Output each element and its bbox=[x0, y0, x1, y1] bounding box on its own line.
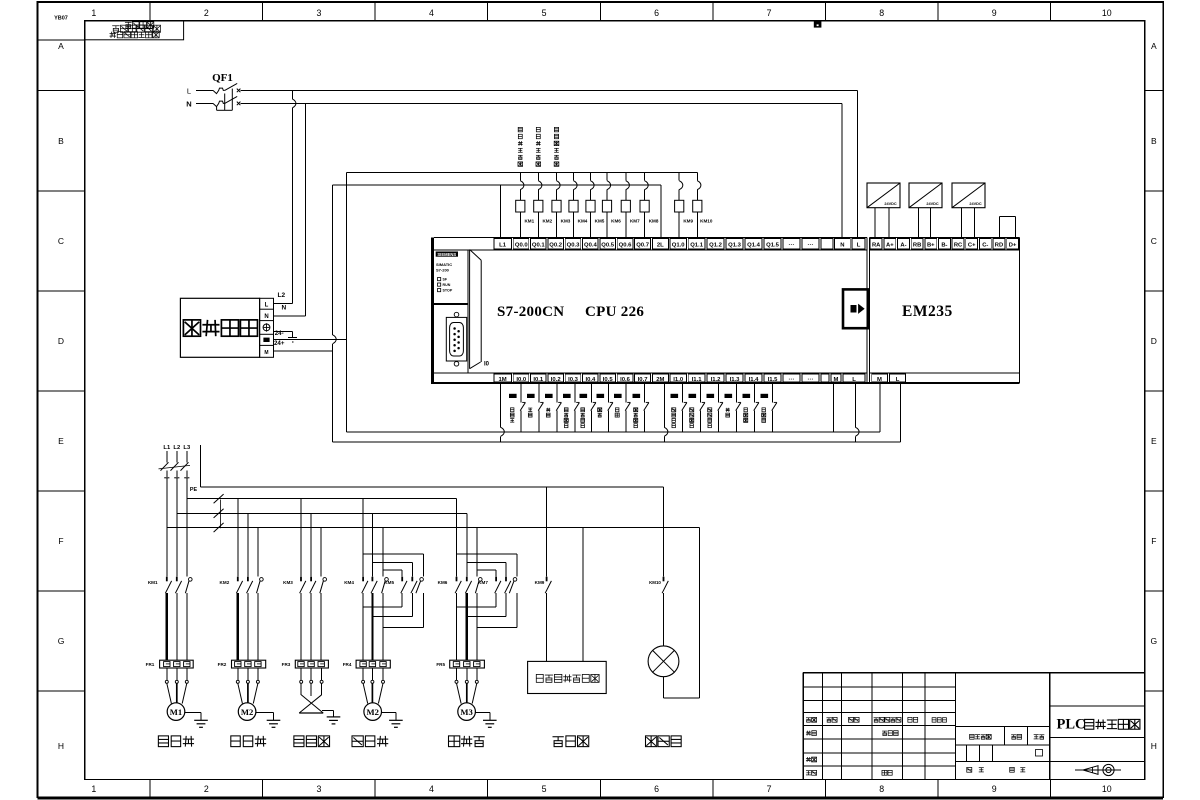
contactor contacts KM6 FWD bbox=[438, 577, 482, 594]
contactor contacts KM3 bbox=[283, 577, 326, 594]
svg-text:6: 6 bbox=[654, 784, 659, 794]
thermal relay FR2 bbox=[218, 660, 266, 668]
vertical label 加热器接触器 bbox=[554, 127, 559, 166]
motor M2 KM4 bbox=[364, 703, 382, 721]
svg-text:CPU 226: CPU 226 bbox=[585, 304, 644, 320]
svg-text:H: H bbox=[58, 741, 64, 751]
svg-text:···: ··· bbox=[808, 377, 814, 383]
svg-text:H: H bbox=[1151, 741, 1157, 751]
svg-text:PLC: PLC bbox=[1057, 717, 1086, 733]
svg-text:Q0.7: Q0.7 bbox=[636, 242, 649, 248]
motor M2 branch2 bbox=[238, 703, 256, 721]
svg-text:G: G bbox=[1150, 636, 1157, 646]
drawing label box 合分闸图 bbox=[85, 21, 184, 40]
svg-text:Q1.0: Q1.0 bbox=[672, 242, 685, 248]
EM235 label bbox=[902, 303, 953, 320]
input switch I1.1 bbox=[689, 383, 706, 432]
heater EH triangle bbox=[299, 712, 323, 714]
svg-text:F: F bbox=[58, 536, 63, 546]
svg-text:10: 10 bbox=[1102, 8, 1112, 18]
svg-text:I0.0: I0.0 bbox=[516, 377, 527, 383]
wire L2 tap to DC supply (hooks over N) bbox=[274, 90, 296, 303]
label L3 bbox=[183, 445, 191, 451]
svg-text:Q0.0: Q0.0 bbox=[515, 242, 528, 248]
transducer T2 bbox=[909, 183, 942, 237]
contactor contacts KM7 REV bbox=[478, 577, 517, 594]
svg-text:KM7: KM7 bbox=[478, 580, 488, 585]
svg-text:Q0.5: Q0.5 bbox=[601, 242, 614, 248]
svg-text:KM7: KM7 bbox=[630, 219, 640, 224]
svg-text:L1: L1 bbox=[163, 445, 171, 451]
svg-text:1M: 1M bbox=[499, 377, 507, 383]
transducer T1 bbox=[867, 183, 900, 237]
svg-text:I0.6: I0.6 bbox=[620, 377, 631, 383]
branch1 motor leads bbox=[165, 668, 188, 704]
svg-text:FR3: FR3 bbox=[282, 662, 291, 667]
vertical label 冷风机接触器 bbox=[536, 127, 541, 166]
svg-text:E: E bbox=[58, 436, 64, 446]
relay coil KM2 bbox=[534, 172, 553, 237]
svg-text:STOP: STOP bbox=[443, 289, 453, 293]
svg-text:KM5: KM5 bbox=[595, 219, 605, 224]
svg-text:L1: L1 bbox=[499, 242, 507, 248]
contactor contacts KM4 FWD bbox=[344, 577, 388, 594]
svg-text:I1.0: I1.0 bbox=[673, 377, 684, 383]
relay coil KM4 bbox=[569, 172, 588, 237]
svg-text:1: 1 bbox=[91, 8, 96, 18]
branch3 phase taps bbox=[301, 499, 321, 577]
relay coil KM10 bbox=[693, 172, 713, 237]
bus C bbox=[167, 527, 700, 529]
svg-text:YB07: YB07 bbox=[54, 16, 68, 22]
label 加热器 bbox=[294, 736, 330, 747]
PLC CPU S7-200CN 226 body bbox=[431, 237, 1019, 383]
input switch I0.0 bbox=[509, 383, 526, 432]
relay coil KM9 bbox=[675, 172, 694, 237]
heater leads crossed bbox=[299, 668, 323, 713]
branch2 phase taps bbox=[238, 499, 258, 577]
svg-text:G: G bbox=[58, 636, 65, 646]
phase wire Lb bbox=[176, 481, 178, 577]
branch2 wires to thermal relay bbox=[238, 593, 258, 660]
svg-text:L3: L3 bbox=[183, 445, 191, 451]
CPU label S7-200CN CPU 226 bbox=[497, 304, 644, 320]
svg-text:FR2: FR2 bbox=[218, 662, 227, 667]
label 冷风机 bbox=[231, 736, 266, 747]
wire L1 terminal riser bbox=[500, 185, 502, 237]
svg-text:I0.7: I0.7 bbox=[638, 377, 649, 383]
svg-text:KM5: KM5 bbox=[384, 580, 394, 585]
label 发生器 bbox=[553, 736, 589, 747]
svg-text:F: F bbox=[1151, 536, 1156, 546]
svg-text:N: N bbox=[840, 242, 844, 248]
svg-text:M3: M3 bbox=[460, 707, 472, 717]
label 遮阳帘 bbox=[449, 736, 485, 747]
relay coil KM7 bbox=[621, 172, 640, 237]
input switch I1.5 bbox=[761, 383, 778, 432]
svg-text:KM10: KM10 bbox=[700, 219, 713, 224]
breaker QF1 label bbox=[212, 72, 233, 84]
input switch I1.3 bbox=[725, 383, 742, 432]
lamp EL 补光灯 bbox=[648, 646, 679, 677]
input switch I0.2 bbox=[545, 383, 562, 432]
label N bbox=[186, 100, 191, 109]
EM235 top terminal strip bbox=[870, 238, 1018, 249]
svg-text:7: 7 bbox=[767, 784, 772, 794]
CPU DB9 port bbox=[446, 312, 466, 366]
svg-text:3: 3 bbox=[316, 784, 321, 794]
svg-text:EM235: EM235 bbox=[902, 303, 953, 320]
svg-text:SIEMENS: SIEMENS bbox=[437, 252, 456, 257]
riser A (lower bus to input L bus, hooks over 24+) bbox=[333, 185, 337, 442]
contactor contacts KM2 bbox=[220, 577, 264, 594]
svg-text:I1.1: I1.1 bbox=[692, 377, 703, 383]
svg-text:9: 9 bbox=[992, 784, 997, 794]
svg-text:L: L bbox=[852, 377, 856, 383]
svg-text:B: B bbox=[1151, 136, 1157, 146]
svg-text:KM8: KM8 bbox=[649, 219, 659, 224]
svg-text:Q1.4: Q1.4 bbox=[747, 242, 760, 248]
label 热风机 bbox=[158, 736, 194, 747]
wire 2M bbox=[664, 383, 668, 442]
svg-text:C: C bbox=[58, 236, 64, 246]
bus B bbox=[177, 512, 467, 514]
phase wire La bbox=[166, 481, 168, 577]
label 24+ bbox=[274, 340, 285, 347]
ground M1 bbox=[185, 713, 208, 728]
label I0 bbox=[484, 362, 490, 368]
svg-text:D: D bbox=[58, 336, 64, 346]
branch KM6 wires to thermal relay bbox=[457, 593, 477, 660]
relay coil KM8 bbox=[640, 172, 659, 237]
wire 2L terminal riser bbox=[660, 185, 662, 237]
svg-text:Q1.1: Q1.1 bbox=[690, 242, 703, 248]
svg-text:7: 7 bbox=[767, 8, 772, 18]
svg-text:N: N bbox=[281, 305, 286, 312]
wire N (QF1 to CPU N terminal) bbox=[240, 103, 841, 237]
svg-text:A+: A+ bbox=[886, 242, 894, 248]
svg-text:N: N bbox=[186, 100, 191, 109]
thermal relay FR1 bbox=[146, 660, 194, 668]
title text PLC外部接线图 bbox=[1057, 717, 1140, 733]
branch KM4 wires to thermal relay bbox=[363, 593, 383, 660]
svg-text:24VDC: 24VDC bbox=[884, 202, 896, 206]
input switch I0.7 bbox=[633, 383, 650, 432]
vertical label 热风机接触器 bbox=[518, 127, 523, 166]
ground branch2 bbox=[256, 713, 280, 728]
wire 24- to ground bbox=[274, 332, 293, 338]
svg-text:4: 4 bbox=[429, 784, 434, 794]
CPU top terminal strip bbox=[494, 238, 865, 249]
input switch I0.4 bbox=[580, 383, 597, 432]
svg-text:M1: M1 bbox=[170, 707, 182, 717]
transducer T3 bbox=[952, 183, 985, 237]
svg-text:KM6: KM6 bbox=[438, 580, 448, 585]
svg-text:3: 3 bbox=[316, 8, 321, 18]
svg-text:I0.4: I0.4 bbox=[585, 377, 596, 383]
EM235 module body bbox=[869, 237, 1019, 383]
svg-text:S7-200: S7-200 bbox=[436, 267, 450, 272]
bus A bbox=[187, 498, 457, 500]
branch KM6 motor leads bbox=[455, 668, 478, 704]
svg-text:A-: A- bbox=[900, 242, 906, 248]
generator switch KM9 contact bbox=[535, 487, 552, 661]
svg-text:FR1: FR1 bbox=[146, 662, 155, 667]
input switch I0.6 bbox=[614, 383, 631, 432]
svg-text:M: M bbox=[877, 377, 882, 383]
wire 24+ to riser B bbox=[274, 338, 347, 340]
svg-text:I1.4: I1.4 bbox=[749, 377, 760, 383]
svg-text:Q1.5: Q1.5 bbox=[766, 242, 779, 248]
svg-text:4: 4 bbox=[429, 8, 434, 18]
branch KM4 phase taps bbox=[363, 499, 383, 577]
crossover wiring KM5 bbox=[363, 554, 424, 577]
wire EM M bbox=[879, 383, 881, 432]
first-angle projection symbol bbox=[1075, 764, 1121, 775]
crossover wiring KM7 bbox=[457, 554, 518, 577]
svg-text:KM2: KM2 bbox=[220, 580, 230, 585]
svg-text:5: 5 bbox=[542, 784, 547, 794]
label PE bbox=[190, 487, 198, 493]
coil bus lower bbox=[333, 184, 661, 186]
svg-text:KM4: KM4 bbox=[578, 219, 588, 224]
wire N feeder H1 bbox=[200, 445, 663, 487]
branch2 motor leads bbox=[236, 668, 259, 704]
thermal relay FR3 bbox=[282, 660, 329, 668]
relay coil KM6 bbox=[602, 172, 621, 237]
ground KM6 bbox=[475, 713, 496, 728]
svg-text:I0.2: I0.2 bbox=[551, 377, 562, 383]
svg-text:M: M bbox=[834, 377, 839, 383]
three-phase slash marks bbox=[214, 494, 224, 532]
thermal relay FR4 bbox=[343, 660, 391, 668]
svg-text:KM1: KM1 bbox=[148, 580, 158, 585]
svg-text:8: 8 bbox=[879, 784, 884, 794]
svg-text:Q1.3: Q1.3 bbox=[728, 242, 741, 248]
input bus M (bus1) bbox=[347, 431, 880, 433]
svg-text:D+: D+ bbox=[1009, 242, 1017, 248]
svg-text:B+: B+ bbox=[927, 242, 935, 248]
wire EM L bbox=[900, 383, 902, 442]
branch1 wires to thermal relay bbox=[167, 593, 187, 660]
svg-text:C: C bbox=[1151, 236, 1157, 246]
svg-text:L: L bbox=[857, 242, 861, 248]
wire M output to riser A bbox=[274, 350, 333, 352]
CPU expansion port bbox=[843, 289, 868, 328]
svg-text:I0: I0 bbox=[484, 362, 490, 368]
revision mark A bbox=[814, 22, 822, 28]
svg-text:Q1.2: Q1.2 bbox=[709, 242, 722, 248]
svg-text:KM3: KM3 bbox=[561, 219, 571, 224]
svg-text:E: E bbox=[1151, 436, 1157, 446]
relay coil KM5 bbox=[586, 172, 605, 237]
svg-text:···: ··· bbox=[789, 377, 795, 383]
svg-text:KM9: KM9 bbox=[683, 219, 693, 224]
svg-text:10: 10 bbox=[1102, 784, 1112, 794]
svg-text:I0.1: I0.1 bbox=[533, 377, 544, 383]
svg-text:SIMATIC: SIMATIC bbox=[436, 262, 452, 267]
svg-text:L: L bbox=[265, 303, 269, 309]
ground (24-) bbox=[288, 337, 297, 342]
svg-text:2: 2 bbox=[204, 784, 209, 794]
input switch I0.5 bbox=[597, 383, 614, 432]
svg-text:I1.5: I1.5 bbox=[768, 377, 779, 383]
branch KM6 phase taps bbox=[457, 499, 477, 577]
input bus L (bus2) bbox=[333, 441, 901, 443]
branch3 wires to thermal relay bbox=[301, 593, 321, 660]
ground heater bbox=[322, 710, 340, 724]
breaker QF1 bbox=[196, 83, 240, 110]
svg-text:I0.5: I0.5 bbox=[603, 377, 614, 383]
svg-text:D: D bbox=[1151, 336, 1157, 346]
lamp return wire bbox=[664, 528, 700, 698]
CO2 generator box 二氧化碳发生器 bbox=[528, 661, 607, 693]
DC power supply 直流电源 bbox=[180, 298, 273, 357]
svg-text:I1.3: I1.3 bbox=[730, 377, 741, 383]
svg-text:S7-200CN: S7-200CN bbox=[497, 304, 564, 320]
CPU SIEMENS panel bbox=[434, 250, 468, 373]
svg-text:24VDC: 24VDC bbox=[969, 202, 981, 206]
svg-text:C-: C- bbox=[982, 242, 988, 248]
svg-text:Q0.1: Q0.1 bbox=[532, 242, 545, 248]
CPU bottom terminal strip bbox=[494, 374, 865, 382]
riser B (upper bus to input M bus) bbox=[346, 172, 348, 431]
svg-text:I1.2: I1.2 bbox=[711, 377, 722, 383]
svg-text:RA: RA bbox=[872, 242, 881, 248]
svg-text:FR4: FR4 bbox=[343, 662, 352, 667]
svg-text:24-: 24- bbox=[275, 330, 284, 337]
svg-text:KM6: KM6 bbox=[611, 219, 621, 224]
svg-text:Q0.6: Q0.6 bbox=[619, 242, 632, 248]
svg-text:···: ··· bbox=[808, 242, 814, 248]
svg-text:L2: L2 bbox=[278, 292, 286, 299]
REV return wiring KM7 bbox=[457, 593, 518, 628]
contactor contacts KM5 REV bbox=[384, 577, 423, 594]
coil bus upper bbox=[347, 171, 698, 173]
svg-text:M2: M2 bbox=[366, 707, 378, 717]
jumper RD-D+ bbox=[1000, 217, 1016, 238]
CPU door wedge bbox=[470, 250, 482, 369]
svg-text:Q0.3: Q0.3 bbox=[567, 242, 580, 248]
wire N tap to DC supply bbox=[274, 103, 306, 315]
input switch I0.1 bbox=[527, 383, 544, 432]
title block bbox=[803, 673, 1145, 780]
input switch I1.2 bbox=[707, 383, 724, 432]
svg-text:M: M bbox=[264, 350, 268, 356]
svg-text:24+: 24+ bbox=[274, 340, 285, 347]
svg-text:KM9: KM9 bbox=[535, 580, 545, 585]
svg-text:FR5: FR5 bbox=[436, 662, 445, 667]
svg-text:A: A bbox=[1151, 41, 1157, 51]
svg-text:5: 5 bbox=[542, 8, 547, 18]
svg-text:9: 9 bbox=[992, 8, 997, 18]
branch KM4 motor leads bbox=[362, 668, 385, 704]
svg-text:KM2: KM2 bbox=[542, 219, 552, 224]
EM235 bottom terminal strip bbox=[872, 374, 906, 382]
svg-text:8: 8 bbox=[879, 8, 884, 18]
label N (DC input) bbox=[281, 305, 286, 312]
ground KM4 bbox=[382, 713, 403, 728]
wire 1M bbox=[501, 383, 505, 442]
svg-text:2: 2 bbox=[204, 8, 209, 18]
svg-text:24VDC: 24VDC bbox=[926, 202, 938, 206]
svg-text:M2: M2 bbox=[241, 707, 253, 717]
svg-text:6: 6 bbox=[654, 8, 659, 18]
svg-text:I0.3: I0.3 bbox=[568, 377, 579, 383]
svg-text:PE: PE bbox=[190, 487, 198, 493]
svg-text:A: A bbox=[58, 41, 64, 51]
svg-text:2L: 2L bbox=[657, 242, 664, 248]
input switch I0.3 bbox=[563, 383, 580, 432]
input switch I1.4 bbox=[743, 383, 760, 432]
label 通风机 bbox=[352, 736, 388, 747]
svg-text:2M: 2M bbox=[656, 377, 664, 383]
motor M3 KM6 bbox=[458, 703, 476, 721]
wire CPU M bbox=[832, 383, 834, 432]
wire CPU L bbox=[856, 383, 860, 442]
svg-text:L2: L2 bbox=[173, 445, 180, 451]
input switch I1.0 bbox=[671, 383, 688, 432]
svg-text:RC: RC bbox=[954, 242, 963, 248]
svg-text:RB: RB bbox=[913, 242, 921, 248]
svg-text:1: 1 bbox=[91, 784, 96, 794]
svg-text:KM3: KM3 bbox=[283, 580, 293, 585]
label L2 bbox=[278, 292, 286, 299]
svg-text:N: N bbox=[264, 314, 268, 320]
contactor contacts KM1 bbox=[148, 577, 192, 594]
svg-text:QF1: QF1 bbox=[212, 72, 233, 84]
svg-text:RUN: RUN bbox=[443, 283, 451, 287]
knife switch QS 3-pole bbox=[159, 451, 191, 481]
label L2 bbox=[173, 445, 180, 451]
phase wire Lc bbox=[186, 481, 188, 577]
svg-text:C+: C+ bbox=[968, 242, 976, 248]
wire generator phase from bus C bbox=[582, 528, 584, 662]
label L bbox=[187, 87, 191, 96]
svg-text:KM10: KM10 bbox=[649, 580, 661, 585]
svg-text:Q0.2: Q0.2 bbox=[549, 242, 562, 248]
lamp switch KM10 contact bbox=[649, 487, 668, 646]
thermal relay FR5 bbox=[436, 660, 484, 668]
svg-text:B-: B- bbox=[941, 242, 947, 248]
motor M1 bbox=[167, 703, 185, 721]
svg-text:KM4: KM4 bbox=[344, 580, 354, 585]
svg-text:RD: RD bbox=[995, 242, 1003, 248]
relay coil KM1 bbox=[516, 172, 535, 237]
svg-text:···: ··· bbox=[789, 242, 795, 248]
svg-text:L: L bbox=[187, 87, 191, 96]
relay coil KM3 bbox=[552, 172, 571, 237]
svg-text:B: B bbox=[58, 136, 64, 146]
label L1 bbox=[163, 445, 171, 451]
wire L (QF1 to CPU L terminal) bbox=[240, 90, 857, 237]
svg-text:Q0.4: Q0.4 bbox=[584, 242, 597, 248]
svg-text:SF: SF bbox=[443, 278, 448, 282]
svg-text:L: L bbox=[896, 377, 900, 383]
REV return wiring KM5 bbox=[363, 593, 424, 628]
svg-text:KM1: KM1 bbox=[524, 219, 534, 224]
label 24- bbox=[275, 330, 284, 337]
label 补光灯 bbox=[646, 736, 682, 747]
